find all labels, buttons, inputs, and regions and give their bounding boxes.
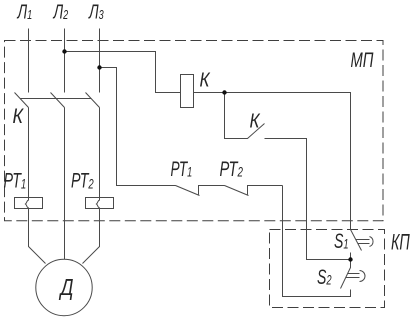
svg-text:РТ2: РТ2 (220, 157, 244, 180)
svg-text:К: К (200, 68, 211, 91)
svg-text:РТ2: РТ2 (71, 169, 94, 192)
svg-text:К: К (13, 105, 25, 129)
svg-text:Л2: Л2 (53, 0, 69, 23)
svg-text:S2: S2 (317, 265, 332, 288)
svg-text:Д: Д (59, 275, 74, 300)
svg-text:МП: МП (351, 48, 375, 71)
svg-text:КП: КП (391, 229, 410, 254)
svg-text:РТ1: РТ1 (4, 169, 27, 192)
svg-text:К: К (250, 109, 261, 132)
svg-text:РТ1: РТ1 (171, 157, 193, 181)
svg-text:Л3: Л3 (88, 0, 104, 23)
svg-text:S1: S1 (334, 229, 349, 252)
svg-text:Л1: Л1 (17, 0, 32, 23)
